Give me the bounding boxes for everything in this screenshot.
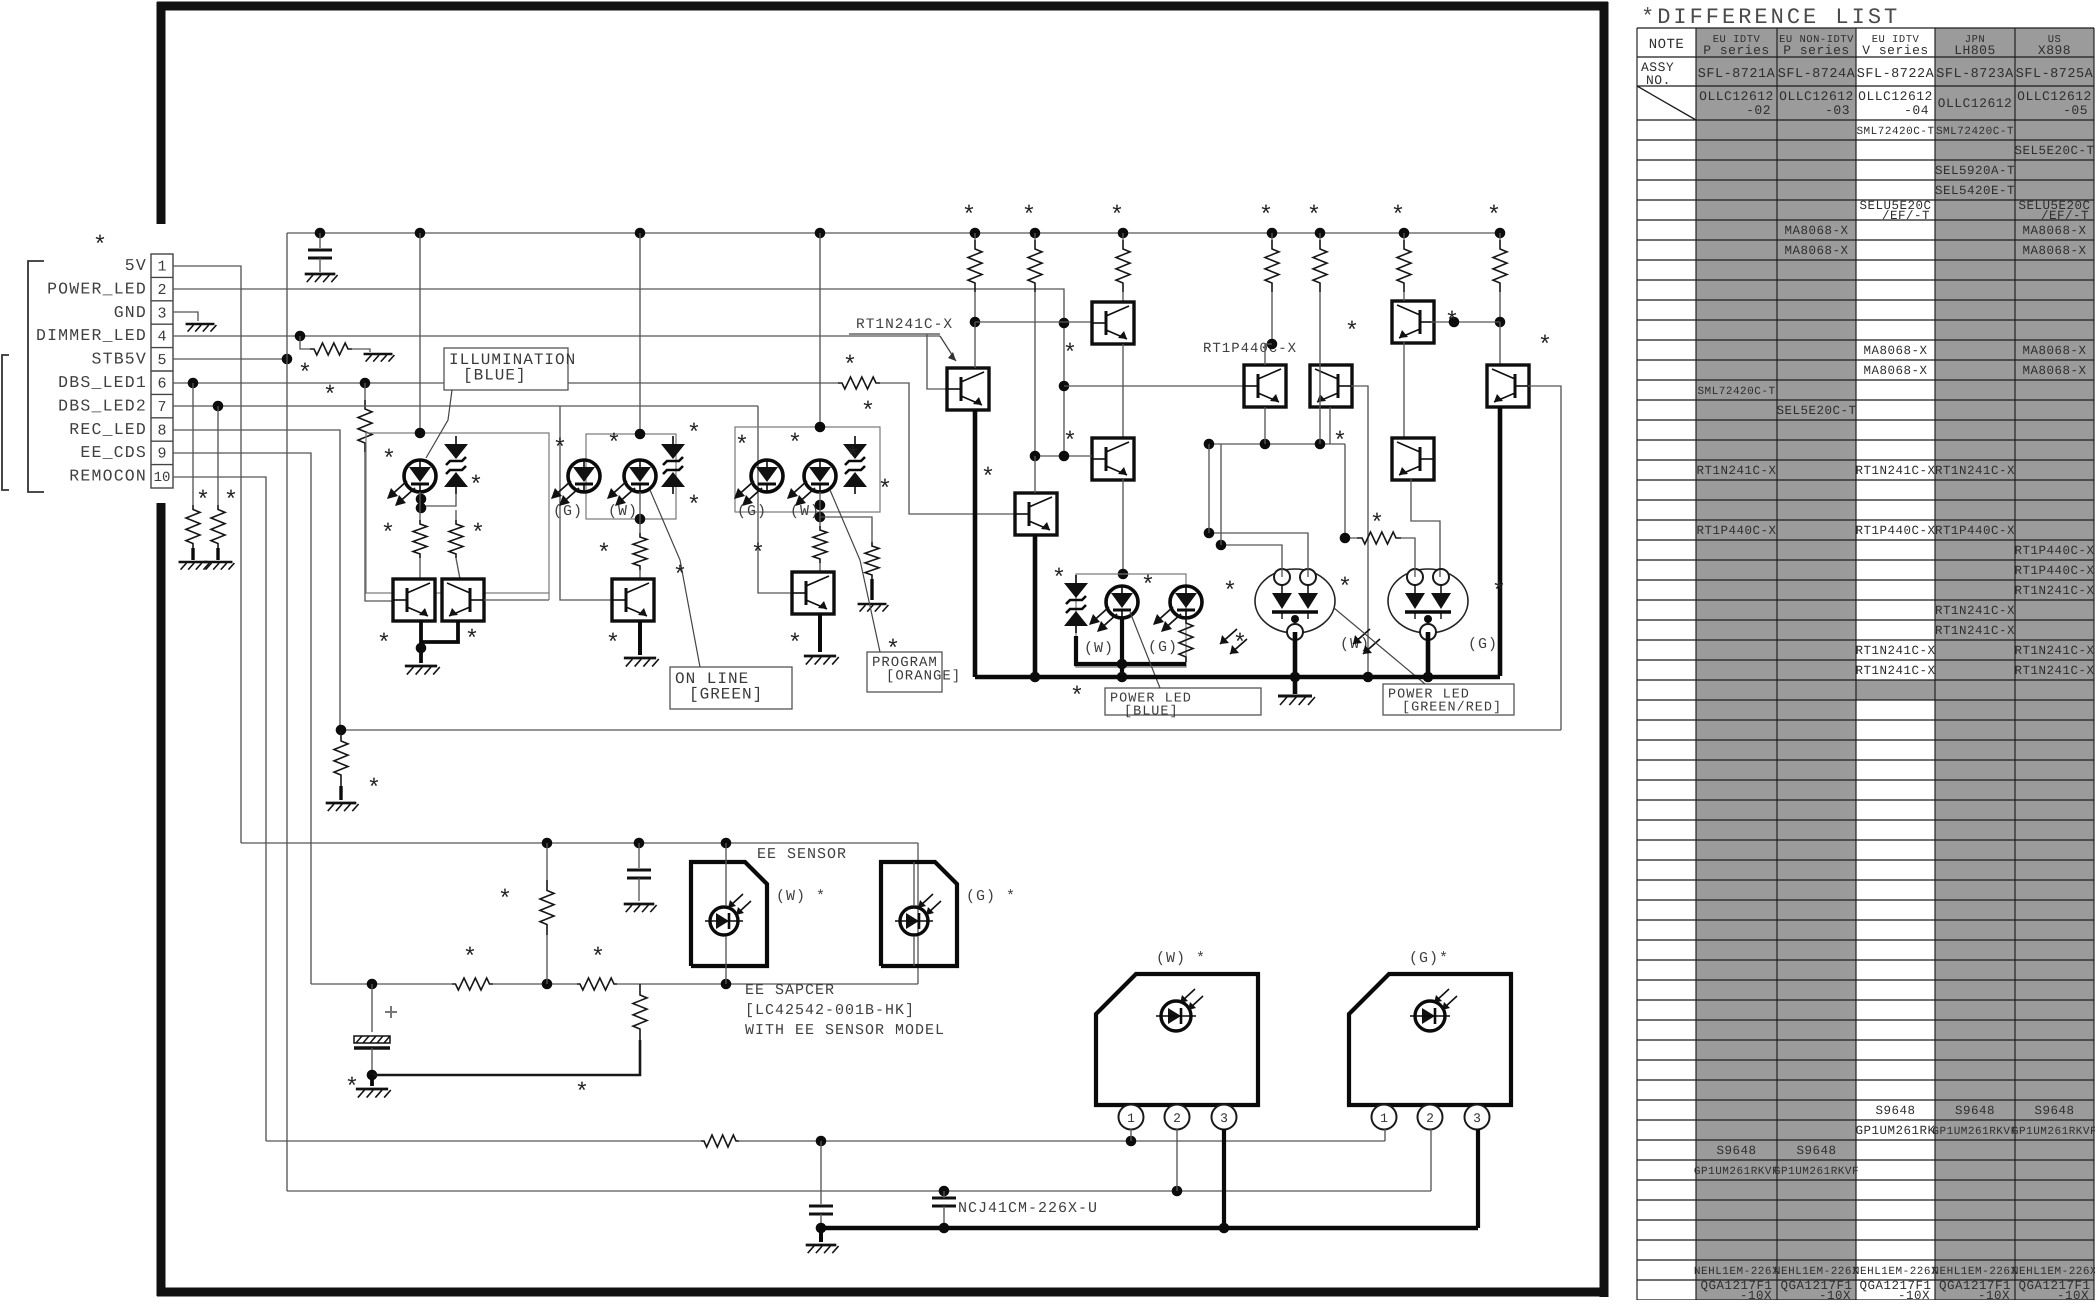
LED D6 green bbox=[734, 460, 783, 506]
svg-text:RT1N241C-X: RT1N241C-X bbox=[1935, 604, 2015, 618]
svg-text:MA8068-X: MA8068-X bbox=[2022, 224, 2086, 238]
pin 1 bbox=[1372, 1105, 1397, 1130]
svg-text:NEHL1EM-226X: NEHL1EM-226X bbox=[1774, 1266, 1859, 1278]
asterisk bbox=[846, 444, 860, 471]
junction bbox=[1449, 317, 1460, 328]
resistor R dimmer bbox=[310, 343, 352, 355]
svg-text:*: * bbox=[1538, 333, 1552, 360]
wire bbox=[370, 1075, 374, 1086]
resistor R ee2 bbox=[577, 978, 617, 990]
svg-text:(G): (G) bbox=[1148, 639, 1178, 656]
wire drop x365 to Q1 base bbox=[358, 383, 393, 601]
svg-text:*: * bbox=[1391, 203, 1405, 230]
wire drop x193 bbox=[192, 383, 194, 505]
label (G) bbox=[553, 503, 583, 520]
pin label EE_CDS bbox=[80, 443, 147, 462]
svg-text:*: * bbox=[224, 488, 238, 515]
wire bbox=[639, 570, 641, 579]
asterisk bbox=[575, 1080, 589, 1107]
capacitor C ee bbox=[627, 870, 651, 878]
asterisk bbox=[861, 399, 875, 426]
svg-text:*: * bbox=[788, 431, 802, 458]
svg-text:S9648: S9648 bbox=[1955, 1104, 1995, 1118]
asterisk bus bbox=[962, 203, 976, 230]
junction bbox=[635, 514, 646, 525]
transistor QB1 bbox=[1392, 301, 1434, 343]
wire x1404 drop bbox=[1403, 292, 1405, 301]
svg-text:POWER_LED: POWER_LED bbox=[47, 279, 147, 298]
svg-text:EE_CDS: EE_CDS bbox=[80, 443, 147, 462]
junction bus x320 bbox=[315, 228, 326, 239]
svg-text:(W) *: (W) * bbox=[776, 888, 826, 905]
ground Rprog2 bbox=[858, 604, 889, 612]
wire PD-G pin riser bbox=[1401, 538, 1415, 577]
wire x547 resistor bbox=[540, 843, 554, 984]
resistor R ee1 bbox=[452, 978, 493, 990]
wire QF collector bbox=[1034, 456, 1036, 493]
pin label REMOCON bbox=[69, 467, 147, 486]
wire emitter bbox=[818, 614, 822, 652]
label PROGRAM bbox=[867, 652, 961, 692]
svg-text:NEHL1EM-226X: NEHL1EM-226X bbox=[1694, 1266, 1779, 1278]
svg-text:*: * bbox=[1487, 203, 1501, 230]
wire STB5V riser bbox=[286, 233, 288, 359]
wire base QA2 bbox=[1030, 451, 1092, 462]
asterisk bbox=[607, 431, 621, 458]
cluster3 outline box bbox=[735, 427, 880, 512]
asterisk bbox=[224, 488, 238, 515]
asterisk bus bbox=[1307, 203, 1321, 230]
wire led w2 down bbox=[1120, 618, 1124, 677]
asterisk bbox=[1141, 573, 1155, 600]
junction pin7 bbox=[213, 401, 224, 412]
label bbox=[1409, 950, 1449, 967]
svg-text:RT1N241C-X: RT1N241C-X bbox=[1855, 664, 1935, 678]
svg-text:/EF/-T: /EF/-T bbox=[1882, 209, 1930, 223]
wire Wpkg pin1 bbox=[1130, 1129, 1132, 1141]
ground PD-W bbox=[1278, 677, 1315, 705]
wire pin10 REMOCON down bbox=[173, 477, 266, 1141]
asterisk bbox=[1345, 319, 1359, 346]
junction bbox=[721, 838, 732, 849]
svg-text:*: * bbox=[687, 493, 701, 520]
svg-text:MA8068-X: MA8068-X bbox=[1863, 344, 1927, 358]
wire elco bbox=[371, 984, 373, 1032]
asterisk bbox=[751, 541, 765, 568]
svg-text:SFL-8724A: SFL-8724A bbox=[1778, 67, 1856, 82]
ground dimmer bbox=[364, 354, 395, 362]
ground x218 bbox=[204, 562, 235, 570]
svg-text:*: * bbox=[878, 477, 892, 504]
svg-text:-03: -03 bbox=[1825, 103, 1850, 118]
svg-text:(G): (G) bbox=[553, 503, 583, 520]
svg-text:*: * bbox=[1141, 573, 1155, 600]
svg-text:1: 1 bbox=[1380, 1111, 1388, 1126]
svg-text:*: * bbox=[1307, 203, 1321, 230]
wire Gpkg pin2 bbox=[1430, 1129, 1432, 1191]
svg-text:S9648: S9648 bbox=[1716, 1144, 1756, 1158]
resistor bus x1320 bbox=[1313, 233, 1327, 292]
wire pin8 REC_LED bbox=[173, 430, 340, 730]
svg-text:*: * bbox=[981, 465, 995, 492]
svg-text:*: * bbox=[673, 563, 687, 590]
svg-text:*: * bbox=[735, 433, 749, 460]
label WITH EE bbox=[745, 1022, 945, 1039]
asterisk bbox=[1070, 684, 1084, 711]
svg-text:RT1N241C-X: RT1N241C-X bbox=[1935, 464, 2015, 478]
svg-text:GP1UM261RKVF: GP1UM261RKVF bbox=[2012, 1126, 2095, 1138]
wire riser x420 bbox=[419, 233, 421, 433]
junction bbox=[1172, 1186, 1183, 1197]
svg-text:-10X: -10X bbox=[1740, 1289, 1772, 1300]
svg-text:*: * bbox=[1063, 429, 1077, 456]
photodiode PD-EE-W bbox=[705, 894, 751, 935]
wire Gpkg pin3 thick bbox=[1476, 1129, 1480, 1228]
junction bbox=[1204, 439, 1215, 450]
junction bbox=[1340, 533, 1351, 544]
asterisk bbox=[1233, 631, 1247, 658]
ground recled bbox=[326, 803, 359, 811]
connector group bracket bbox=[2, 261, 44, 492]
asterisk bbox=[381, 521, 395, 548]
asterisk bbox=[687, 493, 701, 520]
svg-text:P series: P series bbox=[1703, 43, 1769, 58]
svg-text:RT1N241C-X: RT1N241C-X bbox=[2014, 584, 2094, 598]
resistor R dbs2 bbox=[211, 505, 225, 548]
junction bbox=[634, 838, 645, 849]
junction bbox=[1290, 672, 1301, 683]
pin label POWER_LED bbox=[47, 279, 147, 298]
pin 2 bbox=[1165, 1105, 1190, 1130]
junction bus x1500 bbox=[1495, 228, 1506, 239]
svg-text:RT1P440C-X: RT1P440C-X bbox=[2014, 564, 2094, 578]
wire QD base to bus bbox=[1351, 386, 1368, 676]
svg-text:SFL-8725A: SFL-8725A bbox=[2016, 67, 2094, 82]
junction bus x1123 bbox=[1118, 228, 1129, 239]
junction bbox=[367, 979, 378, 990]
wire x1272 drop bbox=[1271, 292, 1273, 344]
svg-text:X898: X898 bbox=[2038, 43, 2071, 58]
asterisk bus bbox=[1391, 203, 1405, 230]
LED D10 power white bbox=[1089, 586, 1138, 632]
svg-text:SFL-8721A: SFL-8721A bbox=[1698, 67, 1776, 82]
IR receiver package (W) * bbox=[1096, 974, 1258, 1105]
ground elco bbox=[356, 1089, 391, 1098]
label (W) bbox=[1084, 640, 1114, 657]
svg-text:MA8068-X: MA8068-X bbox=[1863, 364, 1927, 378]
svg-text:1: 1 bbox=[157, 259, 166, 276]
label POWER LED BLUE bbox=[1105, 688, 1261, 720]
svg-text:[ORANGE]: [ORANGE] bbox=[886, 669, 961, 685]
dual LED package PD-G bbox=[1353, 569, 1468, 654]
difference table body text bbox=[1694, 126, 2095, 1303]
transistor QF bbox=[1015, 493, 1057, 535]
wire pin4 DIMMER_LED bbox=[173, 335, 940, 337]
wire zener join bbox=[421, 494, 456, 506]
svg-text:*: * bbox=[1259, 203, 1273, 230]
cluster1 outline box bbox=[366, 433, 549, 593]
wire pin2 POWER_LED bbox=[173, 289, 1064, 456]
svg-text:(G): (G) bbox=[737, 503, 767, 520]
svg-text:S9648: S9648 bbox=[1796, 1144, 1836, 1158]
svg-text:*: * bbox=[607, 431, 621, 458]
wire cap drop bbox=[319, 233, 321, 248]
asterisk bus bbox=[1022, 203, 1036, 230]
pin 1 bbox=[1119, 1105, 1144, 1130]
resistor R dbs1 bbox=[186, 505, 200, 548]
svg-text:-10X: -10X bbox=[1898, 1289, 1930, 1300]
svg-text:(W): (W) bbox=[608, 503, 638, 520]
svg-text:*: * bbox=[553, 436, 567, 463]
svg-text:-02: -02 bbox=[1746, 103, 1771, 118]
junction bbox=[367, 1070, 378, 1081]
transistor Q3 bbox=[792, 572, 834, 614]
wire risers bbox=[1209, 444, 1221, 545]
svg-text:MA8068-X: MA8068-X bbox=[2022, 344, 2086, 358]
EE sensor W box bbox=[691, 862, 767, 966]
svg-text:*: * bbox=[788, 631, 802, 658]
junction bbox=[416, 494, 427, 505]
svg-text:RT1P440C-X: RT1P440C-X bbox=[2014, 544, 2094, 558]
wire pin4 stub down bbox=[300, 336, 310, 349]
junction bus x1035 bbox=[1030, 228, 1041, 239]
wire PD-G bottom thick bbox=[1426, 632, 1431, 677]
ground x193 bbox=[179, 562, 210, 570]
junction bbox=[970, 317, 981, 328]
LED D4 white bbox=[607, 460, 656, 506]
wire pd w bbox=[725, 843, 727, 984]
IR receiver package (G)* bbox=[1349, 974, 1511, 1105]
label (W) bbox=[790, 503, 820, 520]
svg-text:(W) *: (W) * bbox=[1156, 950, 1206, 967]
label ON LINE bbox=[670, 667, 792, 709]
wire QG top bbox=[974, 322, 976, 368]
wire to QC QD base bbox=[1064, 385, 1244, 387]
wire bbox=[819, 1228, 823, 1242]
svg-text:*: * bbox=[93, 233, 107, 260]
ground bottom bbox=[806, 1245, 839, 1253]
svg-text:MA8068-X: MA8068-X bbox=[1784, 244, 1848, 258]
junction bbox=[416, 643, 427, 654]
junction pin4 resistor bbox=[295, 331, 306, 342]
svg-text:*: * bbox=[1445, 309, 1459, 336]
label bbox=[1156, 950, 1206, 967]
svg-text:V series: V series bbox=[1862, 43, 1928, 58]
asterisk bbox=[1063, 341, 1077, 368]
wire x1320 drop bbox=[1319, 292, 1321, 444]
wire bbox=[339, 786, 342, 800]
svg-text:*: * bbox=[465, 627, 479, 654]
svg-text:RT1N241C-X: RT1N241C-X bbox=[856, 317, 953, 333]
svg-text:*: * bbox=[381, 521, 395, 548]
label POWER LED GREEN/RED bbox=[1383, 684, 1514, 716]
svg-text:STB5V: STB5V bbox=[91, 350, 147, 369]
leader arrow to QG bbox=[940, 336, 956, 361]
asterisk bbox=[1333, 429, 1347, 456]
label EE SENSOR bbox=[757, 846, 847, 863]
wire QG base stub bbox=[927, 334, 948, 389]
wire Wpkg pin3 thick bbox=[1222, 1129, 1226, 1228]
pin label 5V bbox=[125, 256, 147, 275]
asterisk bbox=[196, 488, 210, 515]
junction bbox=[1216, 540, 1227, 551]
wire QF emitter thick bbox=[1033, 535, 1038, 677]
junction bbox=[1117, 659, 1128, 670]
svg-text:5: 5 bbox=[157, 352, 166, 369]
junction bbox=[336, 725, 347, 736]
label RT1P440C-X bbox=[1203, 341, 1297, 357]
svg-text:SEL5E20C-T: SEL5E20C-T bbox=[1776, 404, 1856, 418]
svg-text:*: * bbox=[298, 361, 312, 388]
wire h322 left bbox=[975, 321, 1092, 323]
svg-text:NEHL1EM-226X: NEHL1EM-226X bbox=[2012, 1266, 2095, 1278]
svg-text:SEL5420E-T: SEL5420E-T bbox=[1935, 184, 2015, 198]
svg-text:[BLUE]: [BLUE] bbox=[1124, 705, 1179, 720]
svg-text:OLLC12612: OLLC12612 bbox=[1938, 96, 2013, 111]
svg-text:*: * bbox=[1223, 579, 1237, 606]
resistor R pwr bbox=[1179, 618, 1193, 662]
svg-text:*: * bbox=[382, 447, 396, 474]
svg-text:RT1N241C-X: RT1N241C-X bbox=[1855, 644, 1935, 658]
asterisk bbox=[788, 431, 802, 458]
asterisk bus bbox=[1487, 203, 1501, 230]
svg-text:-10X: -10X bbox=[2057, 1289, 2089, 1300]
svg-text:LH805: LH805 bbox=[1954, 43, 1996, 58]
label (W)* bbox=[776, 888, 826, 905]
asterisk bbox=[735, 433, 749, 460]
wire elco link bbox=[372, 1040, 640, 1075]
resistor R dbs1 series bbox=[838, 377, 880, 389]
wire pin3 GND bbox=[173, 312, 198, 321]
zener pair D9 bbox=[1064, 575, 1088, 633]
label RT1N241C-X bbox=[856, 317, 953, 333]
wire bbox=[216, 548, 219, 560]
svg-text:9: 9 bbox=[157, 446, 166, 463]
svg-text:3: 3 bbox=[157, 305, 166, 322]
wire bbox=[1345, 444, 1357, 538]
EE bus y843 bbox=[241, 842, 918, 844]
asterisk bbox=[1063, 429, 1077, 456]
svg-text:*: * bbox=[345, 1075, 359, 1102]
leader power gr bbox=[1334, 608, 1425, 684]
junction bbox=[816, 1223, 827, 1234]
svg-text:(G) *: (G) * bbox=[966, 888, 1016, 905]
resistor bus x1123 bbox=[1116, 233, 1130, 292]
svg-text:DBS_LED1: DBS_LED1 bbox=[58, 373, 147, 392]
junction bbox=[721, 979, 732, 990]
capacitor C NCJ bbox=[932, 1198, 956, 1206]
label NCJ41CM-226X-U bbox=[958, 1200, 1098, 1217]
asterisk bbox=[843, 353, 857, 380]
junction bus x975 bbox=[970, 228, 981, 239]
svg-text:3: 3 bbox=[1220, 1111, 1228, 1126]
svg-text:MA8068-X: MA8068-X bbox=[2022, 364, 2086, 378]
EE sensor G box bbox=[881, 862, 957, 966]
junction pin2 qa bbox=[1059, 318, 1070, 329]
pin label DIMMER_LED bbox=[36, 326, 147, 345]
wire x1499 drop bbox=[1499, 292, 1501, 322]
asterisk bbox=[471, 521, 485, 548]
wire pin7 to Q2 base bbox=[560, 406, 612, 600]
wire QA-QA2 bbox=[1122, 344, 1124, 438]
difference list title bbox=[1641, 5, 1900, 30]
svg-text:SEL5E20C-T: SEL5E20C-T bbox=[2014, 144, 2094, 158]
plus sign bbox=[385, 1006, 397, 1018]
wire QB1-QB2 bbox=[1403, 342, 1405, 438]
wire emitter bbox=[638, 621, 642, 655]
junction bus x640 bbox=[635, 228, 646, 239]
wire y1141 bbox=[266, 1140, 1385, 1142]
pin label GND bbox=[114, 303, 147, 322]
svg-text:RT1P440C-X: RT1P440C-X bbox=[1855, 524, 1935, 538]
resistor R led3 bbox=[813, 526, 827, 563]
capacitor C b1 bbox=[809, 1206, 833, 1214]
svg-text:*: * bbox=[196, 488, 210, 515]
svg-text:MA8068-X: MA8068-X bbox=[1784, 224, 1848, 238]
svg-text:GP1UM261RKVF: GP1UM261RKVF bbox=[1932, 1126, 2017, 1138]
wire to ground bbox=[352, 349, 370, 352]
wire x1035 drop bbox=[1034, 292, 1036, 456]
svg-text:*: * bbox=[377, 631, 391, 658]
svg-text:(G)*: (G)* bbox=[1409, 950, 1449, 967]
transistor QA bbox=[1092, 302, 1134, 344]
wire bbox=[419, 492, 421, 520]
asterisk bbox=[1445, 309, 1459, 336]
wire QE emitter thick bbox=[1498, 407, 1503, 676]
svg-text:4: 4 bbox=[157, 329, 166, 346]
junction bbox=[416, 503, 427, 514]
label (W) bbox=[1340, 636, 1370, 653]
connector CN pin boxes 1-10 bbox=[151, 254, 173, 488]
junction bus x820 bbox=[815, 228, 826, 239]
wire riser to QE base bbox=[1528, 386, 1561, 730]
wire QC collector bbox=[1264, 344, 1266, 365]
asterisk bbox=[878, 477, 892, 504]
pin label REC_LED bbox=[69, 420, 147, 439]
transistor Q1a bbox=[393, 579, 435, 621]
asterisk bbox=[498, 887, 512, 914]
svg-text:REC_LED: REC_LED bbox=[69, 420, 147, 439]
wire STB5V down feeder bbox=[286, 359, 288, 1191]
asterisk bbox=[469, 473, 483, 500]
svg-text:*: * bbox=[575, 1080, 589, 1107]
svg-text:-04: -04 bbox=[1904, 103, 1929, 118]
wire pin6 DBS_LED1 bbox=[173, 382, 838, 384]
transistor QG rt1n bbox=[947, 368, 989, 410]
resistor R remo bbox=[701, 1135, 739, 1147]
svg-text:RT1P440C-X: RT1P440C-X bbox=[1696, 524, 1776, 538]
svg-text:*: * bbox=[861, 399, 875, 426]
pin 3 bbox=[1212, 1105, 1237, 1130]
junction bbox=[815, 512, 826, 523]
svg-text:EE SAPCER: EE SAPCER bbox=[745, 982, 835, 999]
junction bbox=[1495, 317, 1506, 328]
svg-text:RT1N241C-X: RT1N241C-X bbox=[2014, 664, 2094, 678]
svg-text:8: 8 bbox=[157, 422, 166, 439]
wire branch second resistor bbox=[820, 517, 872, 542]
junction bbox=[1219, 1223, 1230, 1234]
junction bbox=[415, 428, 426, 439]
svg-text:[GREEN]: [GREEN] bbox=[689, 686, 763, 704]
svg-text:*: * bbox=[367, 776, 381, 803]
wire emitters join2 bbox=[421, 620, 458, 642]
label (G) bbox=[1468, 636, 1498, 653]
junction pin2 cbase bbox=[1059, 381, 1070, 392]
svg-text:*: * bbox=[962, 203, 976, 230]
resistor R led1 bbox=[413, 520, 427, 558]
svg-text:REMOCON: REMOCON bbox=[69, 467, 147, 486]
junction bus x1404 bbox=[1399, 228, 1410, 239]
